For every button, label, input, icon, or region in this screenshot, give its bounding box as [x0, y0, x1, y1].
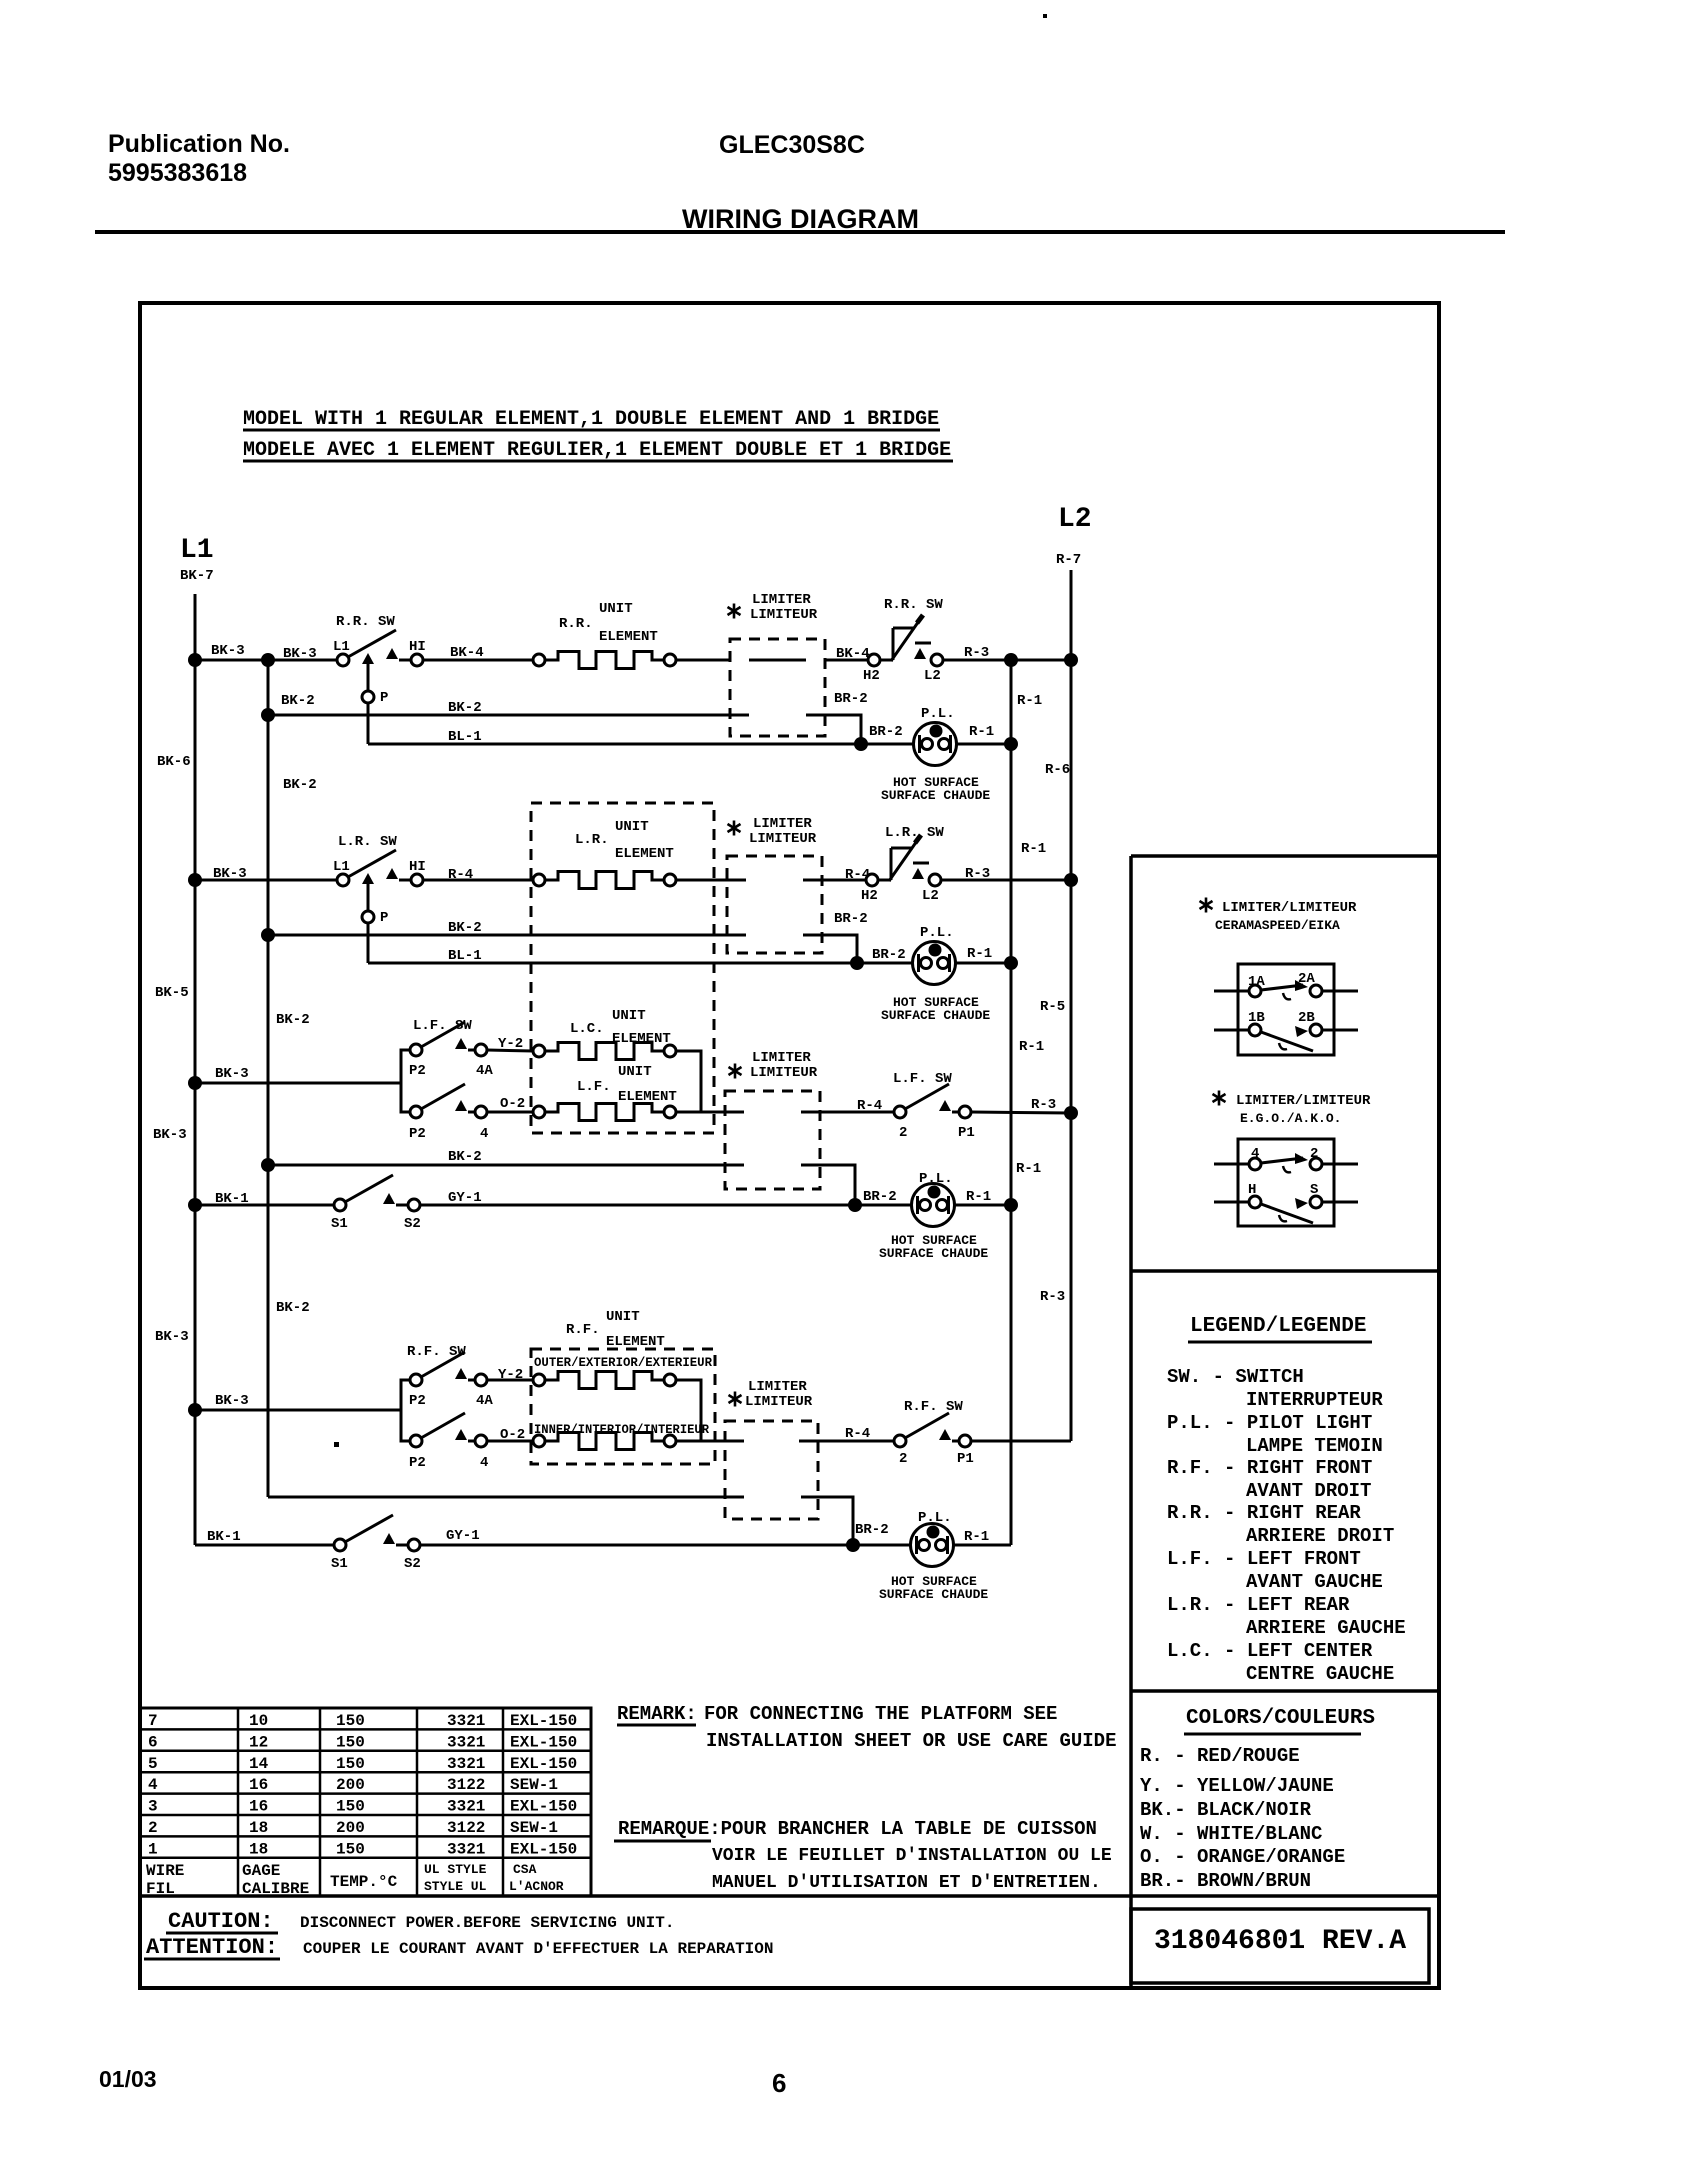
svg-text:L.R.: L.R. — [575, 832, 609, 848]
svg-text:SURFACE CHAUDE: SURFACE CHAUDE — [881, 788, 990, 803]
svg-text:R.F.: R.F. — [566, 1322, 600, 1338]
svg-text:ATTENTION:: ATTENTION: — [146, 1935, 278, 1960]
svg-text:R.R. - RIGHT REAR: R.R. - RIGHT REAR — [1167, 1502, 1361, 1524]
svg-text:LIMITEUR: LIMITEUR — [750, 1065, 818, 1081]
svg-text:EXL-150: EXL-150 — [510, 1733, 577, 1751]
svg-text:BR-2: BR-2 — [834, 911, 868, 927]
svg-text:BR-2: BR-2 — [834, 691, 868, 707]
svg-text:LIMITER: LIMITER — [748, 1379, 807, 1395]
wire P branch row2 — [367, 884, 370, 911]
svg-text:UNIT: UNIT — [599, 601, 633, 617]
wire P.L. to R-1 bus row2 — [955, 962, 1011, 965]
svg-text:SURFACE CHAUDE: SURFACE CHAUDE — [881, 1008, 990, 1023]
svg-text:200: 200 — [336, 1819, 365, 1837]
svg-text:R. - RED/ROUGE: R. - RED/ROUGE — [1140, 1745, 1300, 1767]
svg-text:SURFACE CHAUDE: SURFACE CHAUDE — [879, 1587, 988, 1602]
svg-text:P.L. - PILOT LIGHT: P.L. - PILOT LIGHT — [1167, 1412, 1372, 1434]
svg-text:R-1: R-1 — [1019, 1039, 1044, 1055]
wire switch to element row2 — [423, 879, 533, 882]
svg-text:LIMITER: LIMITER — [753, 816, 812, 832]
svg-text:BR-2: BR-2 — [855, 1522, 889, 1538]
svg-text:L1: L1 — [333, 639, 350, 655]
svg-text:18: 18 — [249, 1840, 268, 1858]
limiter ego box — [1238, 1139, 1334, 1226]
junction row1 at BK-2 bus — [261, 653, 275, 667]
wire joined elements to limiter row3 — [701, 1111, 744, 1114]
wire P to BL-1 row1 — [367, 703, 370, 744]
switch S1 S2 row4 — [334, 1515, 420, 1551]
table rows — [148, 1712, 577, 1858]
svg-text:AVANT DROIT: AVANT DROIT — [1246, 1480, 1371, 1502]
svg-text:L.F. - LEFT FRONT: L.F. - LEFT FRONT — [1167, 1548, 1361, 1570]
svg-text:BL-1: BL-1 — [448, 948, 482, 964]
svg-text:LAMPE TEMOIN: LAMPE TEMOIN — [1246, 1435, 1383, 1457]
svg-text:R-3: R-3 — [1040, 1289, 1065, 1305]
svg-text:TEMP.°C: TEMP.°C — [330, 1873, 398, 1891]
svg-text:150: 150 — [336, 1755, 365, 1773]
svg-text:UNIT: UNIT — [615, 819, 649, 835]
svg-text:STYLE UL: STYLE UL — [424, 1879, 487, 1894]
svg-text:CALIBRE: CALIBRE — [242, 1880, 309, 1898]
wire BK-2 row3 — [268, 1164, 744, 1167]
pilot light P.L. row4 — [911, 1524, 954, 1567]
svg-text:2: 2 — [899, 1125, 907, 1141]
svg-text:R-1: R-1 — [1021, 841, 1046, 857]
svg-text:14: 14 — [249, 1755, 269, 1773]
svg-text:R-6: R-6 — [1045, 762, 1070, 778]
svg-text:EXL-150: EXL-150 — [510, 1755, 577, 1773]
thermal switch R.R. SW right — [868, 615, 943, 666]
colors entries — [1140, 1745, 1345, 1892]
svg-text:LEGEND/LEGENDE: LEGEND/LEGENDE — [1190, 1315, 1366, 1338]
limiter ceramaspeed box — [1238, 964, 1334, 1055]
svg-text:REMARQUE:POUR BRANCHER LA TABL: REMARQUE:POUR BRANCHER LA TABLE DE CUISS… — [618, 1818, 1097, 1840]
svg-text:SURFACE CHAUDE: SURFACE CHAUDE — [879, 1246, 988, 1261]
wire limiter to H2 row2 — [803, 879, 866, 882]
svg-text:R.F. SW: R.F. SW — [904, 1399, 963, 1415]
wire P.L. to R-1 bus corner row4 — [953, 1544, 1011, 1547]
resistor R.F. inner element — [533, 1435, 545, 1447]
junction BL-1/BR-2 row1 — [854, 737, 868, 751]
svg-text:5: 5 — [148, 1755, 158, 1773]
svg-text:ELEMENT: ELEMENT — [615, 846, 674, 862]
svg-text:3321: 3321 — [447, 1733, 485, 1751]
limiter ego heading — [1213, 1091, 1226, 1106]
limiter box row3 — [725, 1091, 820, 1189]
wire joined elements to limiter row4 — [701, 1440, 744, 1443]
svg-text:H2: H2 — [861, 888, 878, 904]
junction P.L. row3 at R-1 bus — [1004, 1198, 1018, 1212]
svg-text:LIMITEUR: LIMITEUR — [745, 1394, 813, 1410]
svg-text:S2: S2 — [404, 1556, 421, 1572]
wire BR-2 limiter exit row2 — [803, 935, 857, 963]
svg-text:P: P — [380, 910, 388, 926]
svg-text:1A: 1A — [1248, 974, 1265, 990]
wire BK-3 row3 feed — [195, 1082, 401, 1085]
wire element join row4 — [676, 1380, 701, 1441]
wire element to limiter row1 — [676, 659, 730, 662]
svg-text:R.R. SW: R.R. SW — [884, 597, 943, 613]
part number box — [1131, 1909, 1429, 1983]
divider below legend — [1131, 1689, 1439, 1693]
junction row1 at L2 bus — [1064, 653, 1078, 667]
svg-text:MODEL WITH 1 REGULAR ELEMENT,1: MODEL WITH 1 REGULAR ELEMENT,1 DOUBLE EL… — [243, 408, 939, 431]
svg-text:ELEMENT: ELEMENT — [618, 1089, 677, 1105]
wire row1 main from L1 bus to switch — [195, 659, 337, 662]
svg-text:INNER/INTERIOR/INTERIEUR: INNER/INTERIOR/INTERIEUR — [534, 1422, 709, 1437]
svg-text:R-1: R-1 — [1016, 1161, 1041, 1177]
limiter ceramaspeed contact 1B-2B — [1214, 1029, 1249, 1032]
svg-text:EXL-150: EXL-150 — [510, 1798, 577, 1816]
svg-text:ELEMENT: ELEMENT — [599, 629, 658, 645]
svg-text:BK-1: BK-1 — [207, 1529, 241, 1545]
switch L.F. SW left upper pole — [410, 1022, 487, 1056]
wire BK-1 row4 — [195, 1544, 334, 1547]
svg-text:BK-3: BK-3 — [213, 866, 247, 882]
svg-text:BK-5: BK-5 — [155, 985, 189, 1001]
junction P.L. row2 at R-1 bus — [1004, 956, 1018, 970]
switch R.F. SW left lower pole — [410, 1413, 487, 1447]
svg-text:CAUTION:: CAUTION: — [168, 1909, 274, 1934]
svg-text:P.L.: P.L. — [921, 706, 955, 722]
svg-text:P1: P1 — [958, 1125, 975, 1141]
svg-text:MODELE AVEC 1 ELEMENT REGULIER: MODELE AVEC 1 ELEMENT REGULIER,1 ELEMENT… — [243, 439, 951, 462]
svg-text:SW. - SWITCH: SW. - SWITCH — [1167, 1366, 1304, 1388]
main schematic border box — [140, 303, 1439, 1988]
svg-text:7: 7 — [148, 1712, 158, 1730]
svg-text:BK-2: BK-2 — [448, 700, 482, 716]
svg-text:16: 16 — [249, 1798, 268, 1816]
junction BK-2 row1 start — [261, 708, 275, 722]
wire BR-2 limiter exit row3 — [801, 1165, 855, 1205]
pilot light P.L. row1 — [914, 723, 957, 766]
svg-text:R-1: R-1 — [969, 724, 994, 740]
svg-text:W. - WHITE/BLANC: W. - WHITE/BLANC — [1140, 1823, 1322, 1845]
stray scan dot row4 — [334, 1442, 339, 1447]
svg-text:S1: S1 — [331, 1216, 348, 1232]
svg-text:UL STYLE: UL STYLE — [424, 1862, 487, 1877]
svg-text:1: 1 — [148, 1840, 158, 1858]
resistor L.C. unit element — [533, 1045, 545, 1057]
divider below limiter details — [1131, 1269, 1439, 1273]
svg-text:L1: L1 — [333, 859, 350, 875]
svg-text:R.F. SW: R.F. SW — [407, 1344, 466, 1360]
wire P branch row1 — [367, 664, 370, 691]
switch L.F. SW left lower pole — [410, 1084, 487, 1118]
svg-text:L.C. - LEFT CENTER: L.C. - LEFT CENTER — [1167, 1640, 1373, 1662]
svg-text:3122: 3122 — [447, 1819, 485, 1837]
resistor R.R. unit element — [533, 654, 545, 666]
wire row2 main from L1 bus to switch — [195, 879, 337, 882]
svg-text:R.R. SW: R.R. SW — [336, 614, 395, 630]
wire BK-2 bus — [267, 660, 270, 1497]
wire L1 bus — [194, 594, 197, 1545]
wire element join row3 — [676, 1051, 701, 1112]
svg-text:BK-3: BK-3 — [215, 1393, 249, 1409]
junction BL-1/BR-2 row2 — [850, 956, 864, 970]
svg-text:200: 200 — [336, 1776, 365, 1794]
svg-text:L.R. - LEFT REAR: L.R. - LEFT REAR — [1167, 1594, 1350, 1616]
svg-text:H: H — [1248, 1182, 1256, 1198]
svg-text:BR-2: BR-2 — [869, 724, 903, 740]
svg-text:6: 6 — [772, 2068, 786, 2098]
svg-text:BK-7: BK-7 — [180, 568, 214, 584]
svg-text:L2: L2 — [922, 888, 939, 904]
svg-text:VOIR LE FEUILLET D'INSTALLATIO: VOIR LE FEUILLET D'INSTALLATION OU LE — [712, 1846, 1112, 1866]
svg-text:2: 2 — [899, 1451, 907, 1467]
svg-text:BK-2: BK-2 — [448, 1149, 482, 1165]
svg-text:R-3: R-3 — [965, 866, 990, 882]
svg-text:EXL-150: EXL-150 — [510, 1712, 577, 1730]
svg-text:R-1: R-1 — [1017, 693, 1042, 709]
table header — [146, 1862, 398, 1898]
svg-text:P.L.: P.L. — [918, 1510, 952, 1526]
wire switch feed connector row4 — [401, 1380, 410, 1441]
svg-text:R-3: R-3 — [1031, 1097, 1056, 1113]
svg-text:BK-2: BK-2 — [448, 920, 482, 936]
right info panel left edge — [1129, 856, 1133, 1988]
wire P1 to L2 bus row3 — [971, 1112, 1071, 1113]
limiter ceramaspeed heading — [1200, 898, 1213, 913]
svg-text:10: 10 — [249, 1712, 268, 1730]
wire limiter to H2 row1 — [825, 659, 868, 662]
wire BK-2 row1 — [268, 714, 749, 717]
svg-text:E.G.O./A.K.O.: E.G.O./A.K.O. — [1240, 1111, 1341, 1126]
svg-text:P.L.: P.L. — [920, 925, 954, 941]
resistor L.F. unit element — [533, 1106, 545, 1118]
svg-text:L.F. SW: L.F. SW — [413, 1018, 472, 1034]
svg-text:6: 6 — [148, 1733, 158, 1751]
svg-text:INTERRUPTEUR: INTERRUPTEUR — [1246, 1389, 1383, 1411]
svg-text:HI: HI — [409, 859, 426, 875]
svg-text:150: 150 — [336, 1840, 365, 1858]
right info panel top edge — [1131, 854, 1439, 858]
svg-text:5995383618: 5995383618 — [108, 159, 247, 187]
wire L2 contact to L2 bus row1 — [943, 659, 1071, 662]
svg-text:Y. - YELLOW/JAUNE: Y. - YELLOW/JAUNE — [1140, 1775, 1334, 1797]
wire limiter to switch row4 — [799, 1440, 894, 1443]
switch L.F. SW right — [894, 1084, 971, 1118]
limiter ceramaspeed contact 1A-2A — [1214, 990, 1249, 993]
svg-text:4A: 4A — [476, 1393, 493, 1409]
wire BK-1 row3 — [195, 1204, 334, 1207]
svg-text:DISCONNECT POWER.BEFORE SERVIC: DISCONNECT POWER.BEFORE SERVICING UNIT. — [300, 1914, 674, 1932]
switch S1 S2 row3 — [334, 1175, 420, 1211]
svg-text:01/03: 01/03 — [99, 2066, 157, 2092]
junction row4 BK-3 at L1 bus — [188, 1403, 202, 1417]
svg-text:BK-3: BK-3 — [283, 646, 317, 662]
limiter ego contact 4-2 — [1214, 1163, 1249, 1166]
pilot tap triangle row1 — [362, 653, 374, 664]
svg-text:150: 150 — [336, 1798, 365, 1816]
wire element to limiter row2 — [676, 879, 746, 882]
svg-text:3: 3 — [148, 1798, 158, 1816]
wire L2 contact to L2 bus row2 — [941, 879, 1071, 882]
svg-text:R.F. - RIGHT FRONT: R.F. - RIGHT FRONT — [1167, 1457, 1372, 1479]
svg-text:4: 4 — [1251, 1146, 1259, 1162]
wire P to BL-1 row2 — [367, 923, 370, 963]
svg-text:H2: H2 — [863, 668, 880, 684]
junction P.L. row1 at R-1 bus — [1004, 737, 1018, 751]
svg-text:S1: S1 — [331, 1556, 348, 1572]
svg-text:BK-3: BK-3 — [153, 1127, 187, 1143]
svg-text:R-1: R-1 — [964, 1529, 989, 1545]
limiter contact row1 — [749, 659, 806, 662]
junction row3 BK-3 at L1 bus — [188, 1076, 202, 1090]
svg-text:UNIT: UNIT — [618, 1064, 652, 1080]
svg-text:UNIT: UNIT — [606, 1309, 640, 1325]
wire switch to outer element row4 — [487, 1379, 533, 1382]
wire BL-1 row1 — [368, 743, 914, 746]
svg-text:OUTER/EXTERIOR/EXTERIEUR: OUTER/EXTERIOR/EXTERIEUR — [534, 1355, 712, 1370]
svg-text:UNIT: UNIT — [612, 1008, 646, 1024]
svg-text:LIMITER: LIMITER — [752, 1050, 811, 1066]
svg-text:L.F.: L.F. — [577, 1079, 611, 1095]
junction BK-2 row3 start — [261, 1158, 275, 1172]
limiter ego contact H-S — [1214, 1201, 1249, 1204]
wire BL-1 row2 — [368, 962, 913, 965]
wire BK-3 row4 feed — [195, 1409, 401, 1412]
limiter box row1 — [730, 639, 825, 736]
svg-text:3321: 3321 — [447, 1712, 485, 1730]
full width divider above caution row — [140, 1894, 1439, 1898]
svg-text:P1: P1 — [957, 1451, 974, 1467]
svg-text:CENTRE GAUCHE: CENTRE GAUCHE — [1246, 1663, 1394, 1685]
wire S2 to pilot light row3 — [420, 1204, 912, 1207]
limiter box row2 — [727, 856, 822, 953]
svg-text:BK-3: BK-3 — [215, 1066, 249, 1082]
legend entries — [1167, 1366, 1406, 1685]
svg-text:INSTALLATION SHEET OR USE CARE: INSTALLATION SHEET OR USE CARE GUIDE — [706, 1730, 1116, 1752]
svg-text:4: 4 — [480, 1455, 488, 1471]
svg-text:SEW-1: SEW-1 — [510, 1776, 558, 1794]
svg-text:Publication No.: Publication No. — [108, 130, 290, 158]
svg-text:L2: L2 — [1058, 504, 1092, 535]
svg-text:4A: 4A — [476, 1063, 493, 1079]
junction row1 at L1 bus — [188, 653, 202, 667]
svg-text:R-5: R-5 — [1040, 999, 1065, 1015]
svg-text:R-4: R-4 — [845, 1426, 870, 1442]
svg-text:FOR CONNECTING THE PLATFORM SE: FOR CONNECTING THE PLATFORM SEE — [704, 1703, 1057, 1725]
svg-text:WIRING DIAGRAM: WIRING DIAGRAM — [682, 204, 919, 234]
wire gauge table grid — [140, 1708, 591, 1896]
svg-text:LIMITER/LIMITEUR: LIMITER/LIMITEUR — [1236, 1093, 1371, 1109]
svg-text:COUPER LE COURANT AVANT D'EFFE: COUPER LE COURANT AVANT D'EFFECTUER LA R… — [303, 1940, 773, 1958]
svg-text:S: S — [1310, 1182, 1318, 1198]
svg-text:2: 2 — [1310, 1146, 1318, 1162]
svg-text:WIRE: WIRE — [146, 1862, 184, 1880]
wire switch feed connector row3 — [401, 1050, 410, 1112]
svg-text:BK-3: BK-3 — [155, 1329, 189, 1345]
wire P.L. to R-1 bus row3 — [954, 1204, 1011, 1207]
svg-text:R-7: R-7 — [1056, 552, 1081, 568]
svg-text:3321: 3321 — [447, 1755, 485, 1773]
terminal P row2 — [362, 911, 374, 923]
pilot light P.L. row3 — [912, 1184, 955, 1227]
svg-text:4: 4 — [148, 1776, 158, 1794]
svg-text:S2: S2 — [404, 1216, 421, 1232]
thermal switch L.R. SW right — [866, 835, 941, 886]
svg-text:3321: 3321 — [447, 1798, 485, 1816]
svg-text:L.F. SW: L.F. SW — [893, 1071, 952, 1087]
svg-text:L.R. SW: L.R. SW — [338, 834, 397, 850]
svg-text:2: 2 — [148, 1819, 158, 1837]
junction row3 BK-1 at L1 bus — [188, 1198, 202, 1212]
wire BR-2 limiter exit row4 — [801, 1497, 853, 1545]
svg-text:R-4: R-4 — [857, 1098, 882, 1114]
svg-text:P2: P2 — [409, 1126, 426, 1142]
svg-text:GY-1: GY-1 — [446, 1528, 480, 1544]
header rule — [95, 230, 1505, 234]
wire BK-2 bottom return row4 — [268, 1496, 744, 1499]
svg-text:4: 4 — [480, 1126, 488, 1142]
svg-text:L.R. SW: L.R. SW — [885, 825, 944, 841]
switch R.F. SW right — [894, 1413, 971, 1447]
svg-text:BK-2: BK-2 — [276, 1012, 310, 1028]
svg-text:BR-2: BR-2 — [863, 1189, 897, 1205]
svg-text:MANUEL D'UTILISATION ET D'ENTR: MANUEL D'UTILISATION ET D'ENTRETIEN. — [712, 1873, 1101, 1893]
svg-text:L'ACNOR: L'ACNOR — [509, 1879, 564, 1894]
svg-text:P.L.: P.L. — [919, 1171, 953, 1187]
switch R.F. SW left upper pole — [410, 1352, 487, 1386]
svg-text:BK-4: BK-4 — [836, 646, 870, 662]
svg-text:P: P — [380, 690, 388, 706]
wire switch to element row1 — [423, 659, 533, 662]
svg-text:L2: L2 — [924, 668, 941, 684]
svg-text:P2: P2 — [409, 1455, 426, 1471]
svg-text:HI: HI — [409, 639, 426, 655]
wire switch to L.F. element row3 — [487, 1111, 533, 1114]
svg-text:18: 18 — [249, 1819, 268, 1837]
svg-text:O-2: O-2 — [500, 1096, 525, 1112]
junction row2 at L1 bus — [188, 873, 202, 887]
svg-text:P2: P2 — [409, 1393, 426, 1409]
svg-text:BK-3: BK-3 — [211, 643, 245, 659]
svg-text:2B: 2B — [1298, 1010, 1315, 1026]
svg-text:GAGE: GAGE — [242, 1862, 280, 1880]
svg-text:150: 150 — [336, 1712, 365, 1730]
svg-text:1B: 1B — [1248, 1010, 1265, 1026]
svg-text:BK-2: BK-2 — [281, 693, 315, 709]
svg-text:ELEMENT: ELEMENT — [612, 1031, 671, 1047]
wire S2 to pilot light row4 — [420, 1544, 911, 1547]
svg-text:3122: 3122 — [447, 1776, 485, 1794]
svg-text:R-1: R-1 — [967, 946, 992, 962]
switch L.R. SW left — [337, 850, 423, 886]
svg-text:BK-2: BK-2 — [283, 777, 317, 793]
stray scan dot top — [1043, 14, 1047, 18]
svg-text:LIMITEUR: LIMITEUR — [749, 831, 817, 847]
svg-text:LIMITER/LIMITEUR: LIMITER/LIMITEUR — [1222, 900, 1357, 916]
svg-text:L.C.: L.C. — [570, 1021, 604, 1037]
wire BR-2 limiter exit row1 — [806, 715, 861, 744]
svg-text:12: 12 — [249, 1733, 268, 1751]
svg-text:O. - ORANGE/ORANGE: O. - ORANGE/ORANGE — [1140, 1846, 1345, 1868]
svg-text:CSA: CSA — [513, 1862, 537, 1877]
svg-text:BK.- BLACK/NOIR: BK.- BLACK/NOIR — [1140, 1799, 1312, 1821]
junction row1 at R-1 bus — [1004, 653, 1018, 667]
dashed unit element box row4 — [531, 1349, 715, 1464]
svg-text:BK-2: BK-2 — [276, 1300, 310, 1316]
svg-text:R.R.: R.R. — [559, 616, 593, 632]
svg-text:GLEC30S8C: GLEC30S8C — [719, 131, 865, 159]
svg-text:CERAMASPEED/EIKA: CERAMASPEED/EIKA — [1215, 918, 1340, 933]
wire switch to inner element row4 — [487, 1440, 533, 1443]
resistor R.F. outer element — [533, 1374, 545, 1386]
switch R.R. SW left — [337, 630, 423, 666]
svg-text:BK-6: BK-6 — [157, 754, 191, 770]
wire switch to L.C. element row3 — [487, 1050, 533, 1051]
